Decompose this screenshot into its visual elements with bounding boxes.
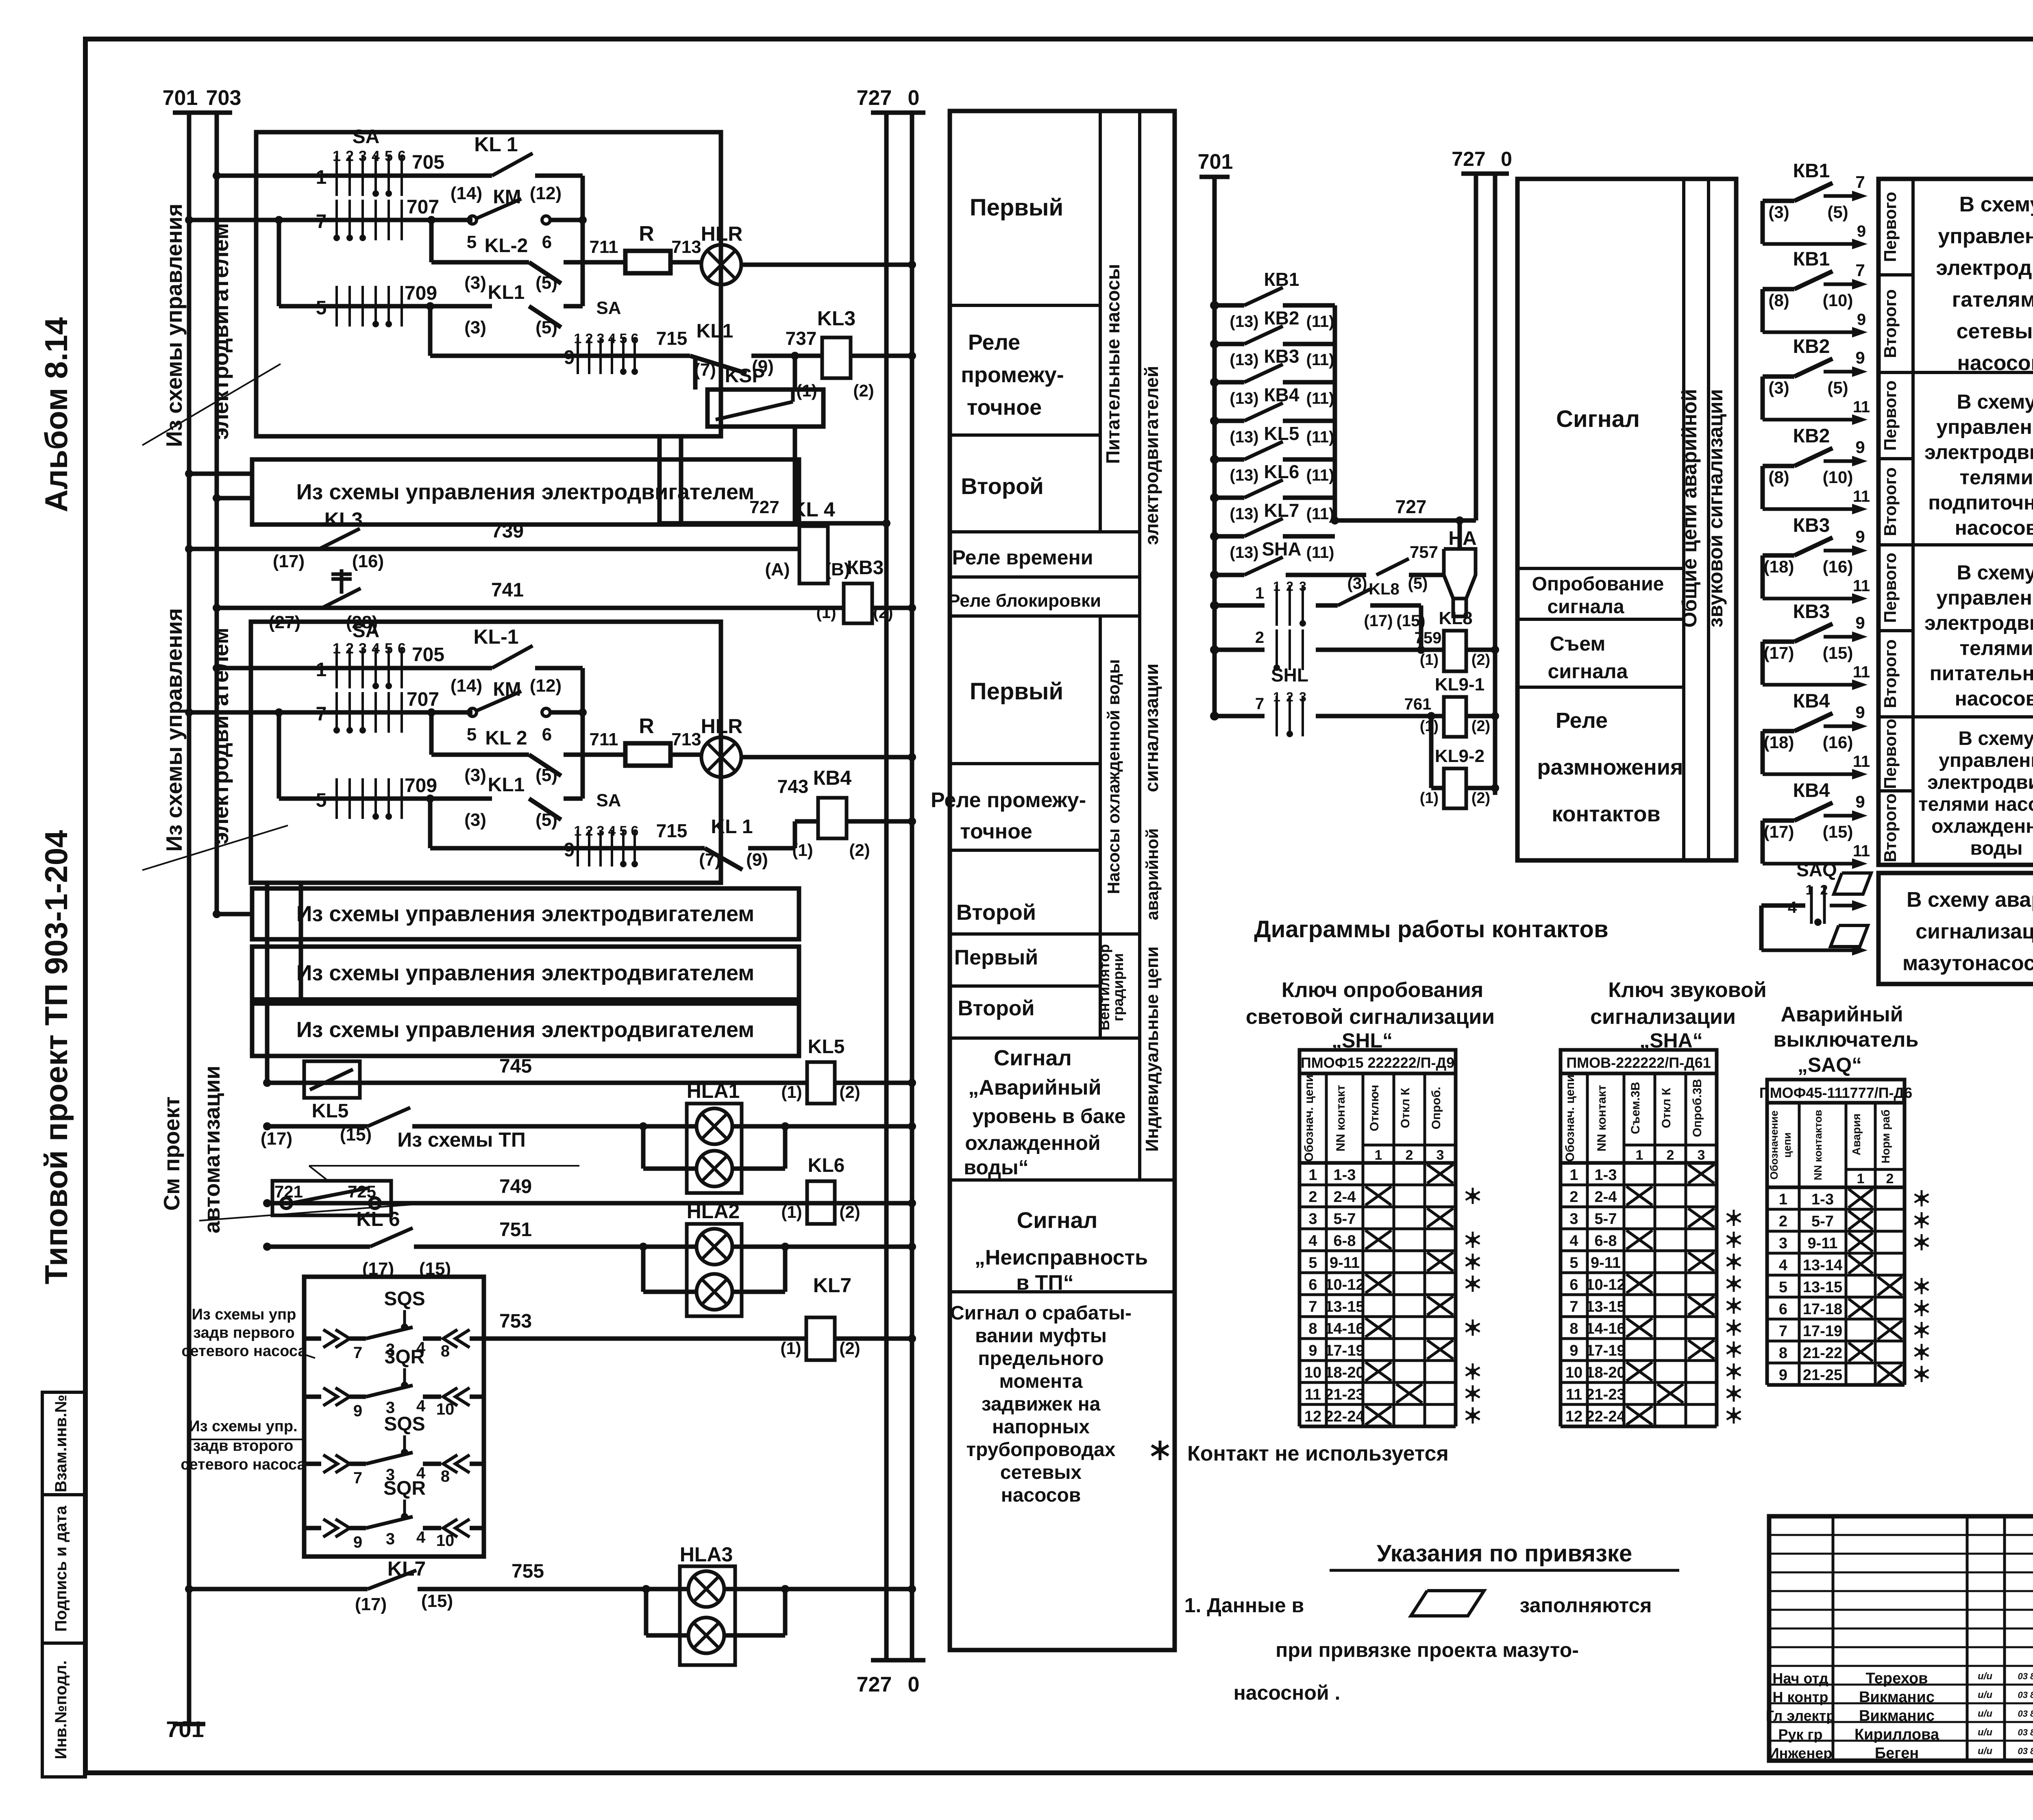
wire node 739 bbox=[189, 547, 799, 551]
wire corner right c1 bbox=[581, 176, 585, 306]
svg-text:(15): (15) bbox=[1823, 643, 1853, 662]
svg-text:управления: управления bbox=[1939, 750, 2033, 771]
svg-text:1: 1 bbox=[1857, 1171, 1865, 1186]
svg-text:Отключ: Отключ bbox=[1368, 1085, 1381, 1131]
svg-text:9: 9 bbox=[1855, 527, 1865, 546]
svg-text:2: 2 bbox=[1569, 1189, 1578, 1206]
svg-text:Второго: Второго bbox=[1881, 793, 1900, 862]
timer KSP bbox=[693, 358, 698, 390]
svg-text:(2): (2) bbox=[839, 1082, 860, 1102]
svg-text:5: 5 bbox=[385, 148, 393, 164]
svg-text:(27): (27) bbox=[269, 612, 300, 632]
svg-text:Реле: Реле bbox=[1556, 708, 1608, 733]
svg-text:1: 1 bbox=[1569, 1167, 1578, 1184]
lamp HLR circuit2 bbox=[670, 753, 703, 757]
svg-text:715: 715 bbox=[656, 820, 688, 841]
contact TP 721-725 bbox=[272, 1181, 391, 1215]
svg-text:5: 5 bbox=[620, 331, 627, 346]
diagram table ПМОФ15 222222/П-Д9 bbox=[1299, 1050, 1456, 1073]
switch SA circuit2 row2 bbox=[335, 692, 338, 733]
svg-text:„SAQ“: „SAQ“ bbox=[1798, 1054, 1862, 1076]
svg-text:Первого: Первого bbox=[1881, 719, 1900, 789]
svg-text:(11): (11) bbox=[1306, 390, 1334, 407]
svg-text:Из схемы упр.: Из схемы упр. bbox=[189, 1418, 297, 1435]
svg-text:КВ3: КВ3 bbox=[1793, 601, 1830, 623]
svg-text:Указания по привязке: Указания по привязке bbox=[1377, 1540, 1632, 1567]
wire node 705 c2 bbox=[217, 666, 492, 671]
table row lines bbox=[950, 304, 1100, 307]
svg-text:(11): (11) bbox=[1306, 313, 1334, 331]
relay coil KL7 bbox=[806, 1317, 835, 1360]
resistor R circuit1 bbox=[583, 260, 625, 265]
wire node 715 bbox=[430, 354, 690, 358]
svg-text:9-11: 9-11 bbox=[1808, 1235, 1838, 1252]
svg-text:выключатель: выключатель bbox=[1774, 1028, 1919, 1052]
svg-text:Обознач. цепи: Обознач. цепи bbox=[1563, 1075, 1577, 1162]
svg-text:Авария: Авария bbox=[1850, 1113, 1863, 1155]
relay coil KL8 bbox=[1421, 648, 1444, 652]
svg-text:(12): (12) bbox=[530, 676, 562, 696]
svg-text:контактов: контактов bbox=[1552, 802, 1660, 826]
svg-text:7: 7 bbox=[1569, 1298, 1578, 1315]
svg-text:КВ3: КВ3 bbox=[1264, 346, 1299, 367]
wire 727 row middle bbox=[1335, 518, 1476, 523]
svg-text:Гл электр: Гл электр bbox=[1766, 1707, 1835, 1724]
contact KL-1 row1 c2 bbox=[492, 646, 533, 668]
svg-text:Терехов: Терехов bbox=[1865, 1670, 1928, 1687]
svg-text:(11): (11) bbox=[1306, 428, 1334, 446]
svg-text:В схему: В схему bbox=[1959, 193, 2033, 216]
contact KL6 chain bbox=[1210, 493, 1219, 502]
svg-text:электродвигателей: электродвигателей bbox=[1141, 366, 1162, 545]
svg-text:В схему: В схему bbox=[1957, 390, 2033, 413]
svg-text:8: 8 bbox=[441, 1467, 450, 1485]
contact KL 1 row4 c2 bbox=[705, 848, 742, 870]
wire node 709 branch c2 bbox=[277, 712, 281, 799]
svg-text:759: 759 bbox=[1415, 629, 1442, 647]
svg-text:9: 9 bbox=[1308, 1342, 1317, 1359]
svg-text:745: 745 bbox=[499, 1056, 532, 1077]
svg-text:Ключ опробования: Ключ опробования bbox=[1282, 978, 1483, 1002]
svg-text:KSP: KSP bbox=[725, 365, 765, 387]
svg-text:6-8: 6-8 bbox=[1595, 1232, 1617, 1250]
svg-text:13-14: 13-14 bbox=[1803, 1257, 1842, 1274]
svg-text:KL 6: KL 6 bbox=[356, 1208, 400, 1230]
svg-text:KL6: KL6 bbox=[1264, 461, 1299, 482]
svg-text:(А): (А) bbox=[765, 559, 790, 579]
svg-text:и/и: и/и bbox=[1978, 1746, 1992, 1757]
svg-text:21-23: 21-23 bbox=[1586, 1386, 1625, 1403]
svg-text:4: 4 bbox=[1788, 899, 1797, 917]
svg-text:Обознач. цепи: Обознач. цепи bbox=[1302, 1075, 1316, 1162]
svg-text:SA: SA bbox=[353, 126, 380, 148]
svg-text:KL9-1: KL9-1 bbox=[1435, 675, 1484, 694]
svg-text:(11): (11) bbox=[1306, 505, 1334, 523]
wire 709 down corner c2 bbox=[428, 799, 433, 848]
svg-text:KL7: KL7 bbox=[813, 1274, 851, 1297]
svg-text:Второй: Второй bbox=[961, 473, 1043, 499]
svg-text:гателями: гателями bbox=[1952, 288, 2033, 311]
svg-text:„Аварийный: „Аварийный bbox=[968, 1076, 1101, 1099]
wire KL3 to bus 0 bbox=[851, 354, 912, 358]
svg-text:задвижек на: задвижек на bbox=[982, 1393, 1101, 1415]
left margin stamp boxes bbox=[42, 1392, 85, 1495]
svg-text:сигнала: сигнала bbox=[1547, 596, 1624, 618]
svg-text:Ключ звуковой: Ключ звуковой bbox=[1608, 978, 1766, 1002]
wire HLA3 row bbox=[642, 1585, 650, 1593]
wire SHA row to KL8 contact bbox=[1286, 573, 1366, 577]
svg-text:11: 11 bbox=[1853, 842, 1870, 860]
wire node 707 bbox=[189, 218, 472, 222]
lamp HLA1 upper bbox=[697, 1108, 732, 1144]
svg-text:KL8: KL8 bbox=[1439, 608, 1472, 628]
svg-text:1: 1 bbox=[316, 167, 327, 188]
svg-text:KL7: KL7 bbox=[387, 1557, 426, 1580]
wire node 709 c2 bbox=[279, 797, 492, 801]
svg-text:Из схемы управления электрод: Из схемы управления электродвигателем bbox=[296, 902, 755, 926]
svg-text:КВ3: КВ3 bbox=[847, 557, 884, 579]
contact KL7 chain bbox=[1210, 532, 1219, 541]
contact KL6 blade bbox=[370, 1228, 413, 1247]
wire to KL9-2 bbox=[1429, 716, 1434, 788]
svg-text:3: 3 bbox=[597, 331, 605, 346]
svg-text:Взам.инв.№: Взам.инв.№ bbox=[52, 1395, 70, 1492]
svg-text:6: 6 bbox=[398, 640, 406, 657]
svg-text:7: 7 bbox=[1855, 172, 1865, 192]
svg-text:(13): (13) bbox=[1230, 390, 1258, 407]
svg-text:управления: управления bbox=[1936, 416, 2033, 438]
svg-text:(28): (28) bbox=[346, 612, 378, 632]
svg-text:воды: воды bbox=[1970, 838, 2022, 859]
svg-text:9: 9 bbox=[1855, 348, 1865, 367]
svg-text:Реле промежу-: Реле промежу- bbox=[931, 788, 1086, 812]
svg-text:NN контакт: NN контакт bbox=[1334, 1085, 1347, 1152]
svg-text:711: 711 bbox=[590, 729, 618, 749]
svg-text:2: 2 bbox=[346, 148, 354, 164]
svg-text:Инв.№подл.: Инв.№подл. bbox=[52, 1660, 70, 1759]
svg-text:2-4: 2-4 bbox=[1595, 1189, 1617, 1206]
wire HLA2 row bbox=[639, 1243, 647, 1251]
svg-text:сигнала: сигнала bbox=[1548, 660, 1628, 683]
svg-text:Из схемы управления: Из схемы управления bbox=[161, 203, 187, 447]
lamp HLA1 lower bbox=[697, 1151, 732, 1186]
svg-text:Из схемы управления электрод: Из схемы управления электродвигателем bbox=[296, 961, 755, 985]
wire KL5 coil to 0 bbox=[835, 1081, 912, 1085]
svg-text:Типовой проект ТП 903-1-204: Типовой проект ТП 903-1-204 bbox=[38, 830, 74, 1284]
svg-text:(3): (3) bbox=[1768, 202, 1789, 222]
svg-text:1: 1 bbox=[1375, 1147, 1382, 1163]
svg-text:3: 3 bbox=[1698, 1147, 1705, 1163]
svg-text:HLR: HLR bbox=[701, 222, 743, 245]
svg-text:Второго: Второго bbox=[1881, 467, 1900, 536]
svg-text:мазутонасосной: мазутонасосной bbox=[1902, 951, 2033, 975]
svg-text:насосов: насосов bbox=[1957, 351, 2033, 375]
relay coil KL9-1 bbox=[1431, 714, 1444, 718]
svg-text:Второй: Второй bbox=[958, 997, 1035, 1020]
svg-text:13-15: 13-15 bbox=[1803, 1279, 1842, 1296]
leader line 1 bbox=[142, 364, 281, 445]
svg-text:Альбом 8.14: Альбом 8.14 bbox=[38, 317, 74, 512]
svg-text:03 83: 03 83 bbox=[2018, 1727, 2033, 1737]
svg-text:сигнализации: сигнализации bbox=[1141, 664, 1162, 792]
switch SA circuit1 row2 bbox=[335, 200, 338, 240]
svg-text:2-4: 2-4 bbox=[1334, 1189, 1356, 1206]
svg-text:HLA2: HLA2 bbox=[687, 1200, 740, 1223]
svg-text:Второго: Второго bbox=[1881, 639, 1900, 708]
relay coil KB4 bbox=[818, 798, 847, 838]
svg-text:2: 2 bbox=[1886, 1171, 1894, 1186]
svg-text:1: 1 bbox=[574, 823, 582, 839]
svg-text:(2): (2) bbox=[839, 1202, 860, 1221]
svg-text:9: 9 bbox=[564, 347, 575, 368]
svg-text:21-25: 21-25 bbox=[1803, 1367, 1842, 1384]
svg-text:Реле: Реле bbox=[968, 330, 1020, 355]
svg-text:(3): (3) bbox=[1347, 575, 1367, 592]
svg-text:5: 5 bbox=[467, 725, 477, 745]
svg-text:6: 6 bbox=[631, 823, 639, 839]
wire node 747 bbox=[267, 1124, 368, 1129]
svg-text:6: 6 bbox=[1569, 1276, 1578, 1293]
HLA1 jogs bbox=[641, 1126, 646, 1169]
svg-text:03 83: 03 83 bbox=[2018, 1690, 2033, 1700]
svg-text:заполняются: заполняются bbox=[1520, 1594, 1652, 1617]
svg-text:KL7: KL7 bbox=[1264, 500, 1299, 521]
svg-text:9: 9 bbox=[1855, 792, 1865, 811]
svg-text:КМ: КМ bbox=[493, 186, 521, 208]
bus 701 middle bbox=[1212, 177, 1217, 716]
wire node 709 branch bbox=[277, 220, 281, 306]
svg-text:КВ2: КВ2 bbox=[1793, 336, 1830, 357]
svg-text:3: 3 bbox=[1437, 1147, 1444, 1163]
svg-text:воды“: воды“ bbox=[964, 1156, 1028, 1179]
contactor KM contact c2 bbox=[468, 708, 477, 716]
svg-text:7: 7 bbox=[1255, 695, 1264, 713]
svg-text:(7): (7) bbox=[699, 850, 721, 870]
svg-text:(3): (3) bbox=[1768, 378, 1789, 397]
svg-text:и/и: и/и bbox=[1978, 1727, 1992, 1738]
bus 703 left bbox=[215, 113, 219, 914]
svg-text:13-15: 13-15 bbox=[1586, 1298, 1625, 1315]
svg-text:КВ1: КВ1 bbox=[1264, 269, 1299, 290]
svg-text:5: 5 bbox=[316, 297, 327, 319]
svg-text:Сигнал о срабаты-: Сигнал о срабаты- bbox=[950, 1302, 1132, 1324]
wire node 755 bbox=[189, 1587, 368, 1591]
svg-text:10: 10 bbox=[1565, 1364, 1582, 1381]
svg-text:телями насосов: телями насосов bbox=[1918, 794, 2033, 815]
svg-text:SAQ: SAQ bbox=[1796, 859, 1837, 880]
svg-text:сигнализации: сигнализации bbox=[1915, 920, 2033, 943]
svg-text:NN контактов: NN контактов bbox=[1812, 1110, 1824, 1180]
svg-text:1: 1 bbox=[1255, 584, 1264, 602]
wire node 751 bbox=[267, 1245, 370, 1249]
wire 753 from SQS bbox=[484, 1337, 806, 1341]
wire HLA1 row bbox=[639, 1122, 647, 1130]
stamp signature table bbox=[1769, 1516, 2033, 1761]
svg-text:(14): (14) bbox=[451, 676, 482, 696]
svg-text:(2): (2) bbox=[839, 1339, 860, 1358]
svg-text:градирни: градирни bbox=[1110, 953, 1126, 1021]
svg-text:Из схемы ТП: Из схемы ТП bbox=[397, 1128, 526, 1151]
svg-text:03 83: 03 83 bbox=[2018, 1709, 2033, 1719]
circuit 1 enclosure box bbox=[256, 132, 721, 436]
svg-text:(2): (2) bbox=[1471, 790, 1490, 807]
svg-text:5-7: 5-7 bbox=[1811, 1213, 1834, 1230]
svg-text:8: 8 bbox=[1308, 1320, 1317, 1337]
svg-text:Викманис: Викманис bbox=[1859, 1707, 1935, 1724]
svg-text:(1): (1) bbox=[780, 1339, 801, 1358]
svg-text:Подпись и дата: Подпись и дата bbox=[52, 1505, 70, 1632]
contact SHA chain bbox=[1210, 570, 1219, 579]
svg-text:1: 1 bbox=[1779, 1191, 1787, 1208]
contact KL1 row1 bbox=[492, 153, 533, 176]
svg-text:Общие цепи аварийной: Общие цепи аварийной bbox=[1678, 389, 1701, 628]
svg-text:SQS: SQS bbox=[384, 1413, 425, 1435]
wire node 745 bbox=[267, 1081, 807, 1085]
svg-text:7: 7 bbox=[316, 211, 327, 233]
svg-text:715: 715 bbox=[656, 328, 688, 349]
wire jog to KB4 coil bbox=[793, 821, 797, 848]
svg-text:(18): (18) bbox=[1764, 733, 1794, 752]
svg-text:питательных: питательных bbox=[1930, 662, 2033, 685]
svg-text:предельного: предельного bbox=[978, 1348, 1104, 1369]
svg-text:1: 1 bbox=[1273, 579, 1280, 594]
svg-text:момента: момента bbox=[999, 1371, 1083, 1392]
svg-text:В схему: В схему bbox=[1957, 561, 2033, 584]
svg-text:ПМОФ45-111777/П-Д6: ПМОФ45-111777/П-Д6 bbox=[1759, 1084, 1912, 1101]
svg-text:711: 711 bbox=[590, 237, 618, 257]
svg-text:9: 9 bbox=[1779, 1367, 1787, 1384]
svg-text:737: 737 bbox=[786, 328, 817, 349]
svg-text:в ТП“: в ТП“ bbox=[1016, 1271, 1074, 1295]
svg-text:КВ2: КВ2 bbox=[1264, 307, 1299, 329]
svg-text:(11): (11) bbox=[1306, 466, 1334, 484]
svg-text:КВ2: КВ2 bbox=[1793, 425, 1830, 447]
svg-text:Аварийный: Аварийный bbox=[1781, 1003, 1903, 1026]
wire KL2 branch bbox=[429, 220, 434, 262]
svg-text:Откл К: Откл К bbox=[1660, 1088, 1673, 1128]
resistor R circuit2 bbox=[583, 753, 625, 757]
svg-text:KL3: KL3 bbox=[324, 508, 363, 531]
svg-text:Обозначение: Обозначение bbox=[1768, 1110, 1780, 1180]
svg-text:Опроб.3В: Опроб.3В bbox=[1691, 1079, 1704, 1137]
svg-text:Н контр: Н контр bbox=[1773, 1689, 1828, 1705]
svg-text:НА: НА bbox=[1448, 528, 1476, 549]
svg-text:1-3: 1-3 bbox=[1811, 1191, 1834, 1208]
svg-text:(13): (13) bbox=[1230, 351, 1258, 369]
svg-text:R: R bbox=[639, 222, 654, 246]
svg-text:(13): (13) bbox=[1230, 505, 1258, 523]
footnote Контакт не используется bbox=[1159, 1441, 1162, 1460]
wire 727 row left bbox=[660, 521, 886, 526]
svg-text:(5): (5) bbox=[1827, 202, 1848, 222]
lampbox HLA2 bbox=[687, 1224, 742, 1316]
svg-text:11: 11 bbox=[1853, 398, 1870, 416]
svg-text:3: 3 bbox=[1779, 1235, 1787, 1252]
lamp HLA3 lower bbox=[688, 1618, 724, 1653]
svg-text:6: 6 bbox=[1779, 1301, 1787, 1318]
svg-text:сетевого насоса: сетевого насоса bbox=[181, 1343, 307, 1360]
svg-text:3: 3 bbox=[597, 823, 605, 839]
svg-text:5: 5 bbox=[385, 640, 393, 657]
svg-text:713: 713 bbox=[671, 237, 701, 257]
svg-text:SQR: SQR bbox=[383, 1478, 426, 1499]
svg-text:2: 2 bbox=[1406, 1147, 1413, 1163]
svg-text:7: 7 bbox=[1855, 261, 1865, 280]
bus 727 left bbox=[884, 113, 889, 1660]
svg-text:КВ4: КВ4 bbox=[1264, 384, 1299, 405]
svg-text:1: 1 bbox=[1273, 690, 1280, 704]
svg-text:(11): (11) bbox=[1306, 544, 1334, 562]
svg-text:1: 1 bbox=[333, 640, 341, 657]
svg-text:14-16: 14-16 bbox=[1586, 1320, 1625, 1337]
wire KB4 to bus 0 bbox=[847, 819, 912, 824]
svg-text:KL9-2: KL9-2 bbox=[1435, 746, 1484, 766]
svg-text:(5): (5) bbox=[535, 273, 557, 293]
svg-text:5: 5 bbox=[316, 790, 327, 811]
svg-text:709: 709 bbox=[405, 775, 437, 797]
box Сигнал bbox=[1517, 179, 1736, 860]
svg-text:точное: точное bbox=[960, 820, 1032, 843]
svg-text:8: 8 bbox=[1569, 1320, 1578, 1337]
switch SA circuit2 row3 bbox=[335, 778, 338, 819]
svg-text:электродвигателем: электродвигателем bbox=[208, 223, 233, 440]
contact KL1 row3 bbox=[529, 306, 561, 327]
svg-text:9-11: 9-11 bbox=[1591, 1254, 1621, 1271]
svg-text:HLR: HLR bbox=[701, 715, 743, 738]
svg-text:насосов: насосов bbox=[1955, 687, 2033, 710]
svg-text:(13): (13) bbox=[1230, 428, 1258, 446]
svg-text:сигнализации: сигнализации bbox=[1590, 1005, 1736, 1029]
svg-text:707: 707 bbox=[407, 196, 439, 218]
svg-text:телями: телями bbox=[1960, 637, 2033, 660]
svg-text:KL 1: KL 1 bbox=[711, 816, 753, 838]
svg-text:Из схемы упр: Из схемы упр bbox=[192, 1306, 296, 1323]
svg-text:Первый: Первый bbox=[954, 946, 1038, 969]
svg-text:ПМОФ15 222222/П-Д9: ПМОФ15 222222/П-Д9 bbox=[1301, 1054, 1454, 1071]
svg-text:(17): (17) bbox=[1364, 612, 1393, 630]
svg-text:0: 0 bbox=[1501, 148, 1512, 170]
svg-text:755: 755 bbox=[512, 1561, 544, 1582]
svg-text:1: 1 bbox=[316, 659, 327, 681]
svg-text:Инженер: Инженер bbox=[1769, 1745, 1832, 1761]
svg-text:Первого: Первого bbox=[1881, 192, 1900, 262]
svg-text:Опробование: Опробование bbox=[1532, 573, 1664, 595]
svg-text:5-7: 5-7 bbox=[1334, 1210, 1356, 1228]
svg-text:727: 727 bbox=[857, 86, 892, 110]
wire KB3 to bus 0 bbox=[872, 606, 912, 610]
svg-text:17-18: 17-18 bbox=[1803, 1301, 1842, 1318]
svg-text:Норм раб: Норм раб bbox=[1879, 1110, 1892, 1164]
diagram table ПМОВ-222222/П-Д61 bbox=[1561, 1050, 1717, 1073]
valve limit switch box SQS/SQR bbox=[304, 1277, 484, 1557]
svg-text:и/и: и/и bbox=[1978, 1671, 1992, 1682]
box Из схемы управления 4 bbox=[252, 1004, 799, 1056]
svg-text:насосной .: насосной . bbox=[1234, 1681, 1341, 1704]
svg-text:2: 2 bbox=[1779, 1213, 1787, 1230]
svg-text:охлажденной: охлажденной bbox=[965, 1132, 1100, 1154]
svg-text:(11): (11) bbox=[1306, 351, 1334, 369]
svg-text:11: 11 bbox=[1853, 753, 1870, 771]
svg-text:7: 7 bbox=[353, 1469, 362, 1487]
wire 709 down corner bbox=[428, 306, 433, 356]
svg-text:(9): (9) bbox=[746, 850, 768, 870]
svg-text:12: 12 bbox=[1304, 1408, 1321, 1425]
svg-text:4: 4 bbox=[416, 1397, 426, 1415]
svg-text:701: 701 bbox=[163, 86, 198, 110]
svg-text:10-12: 10-12 bbox=[1325, 1276, 1364, 1293]
lamp HLA2 lower bbox=[697, 1274, 732, 1310]
svg-text:(13): (13) bbox=[1230, 466, 1258, 484]
